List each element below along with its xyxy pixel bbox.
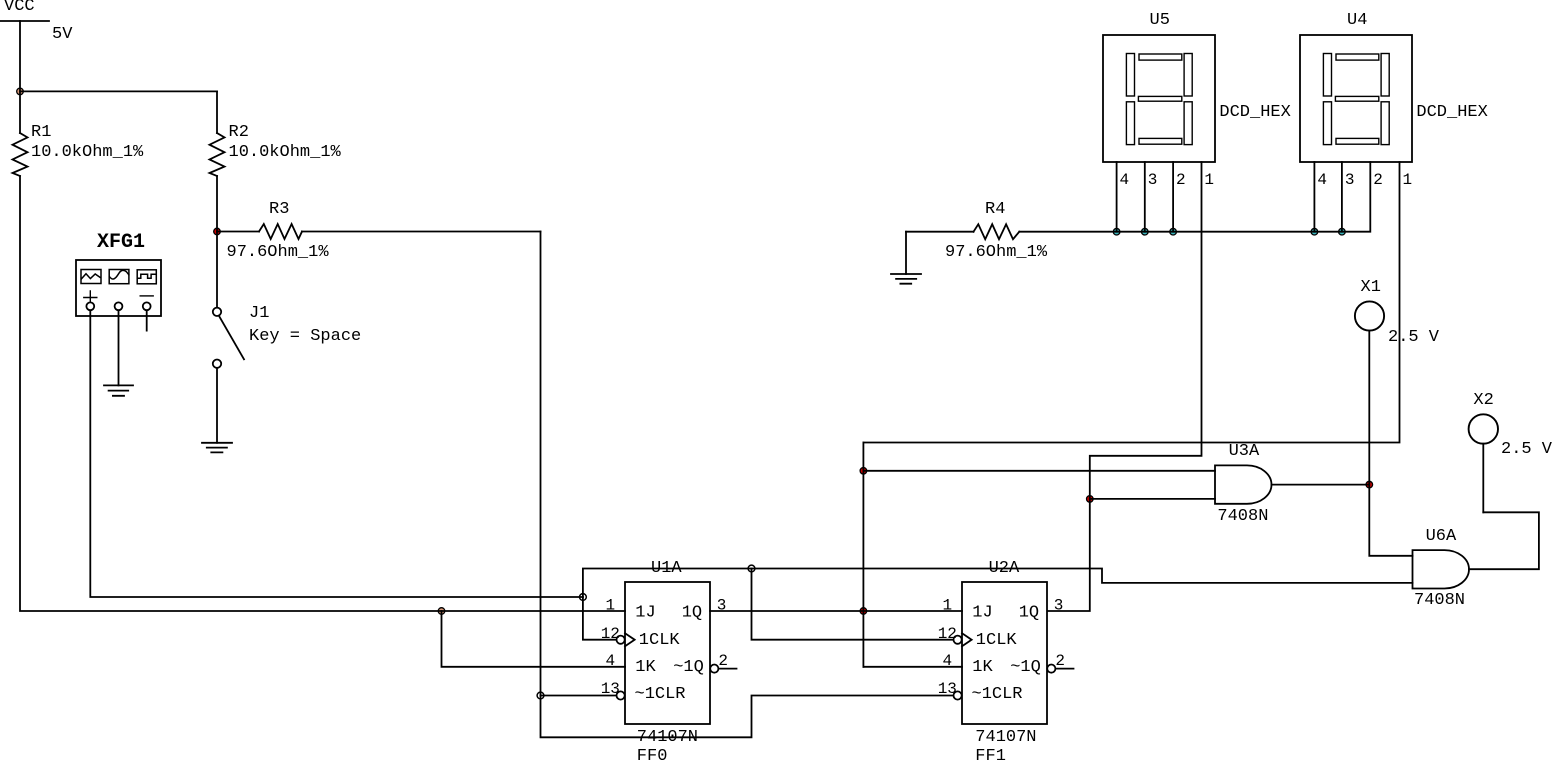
svg-text:12: 12	[938, 625, 957, 643]
svg-text:2: 2	[718, 652, 728, 670]
svg-text:4: 4	[1317, 171, 1327, 189]
svg-text:U2A: U2A	[989, 559, 1020, 578]
display U4 segments	[1323, 54, 1389, 145]
switch J1 top contact	[213, 308, 221, 316]
svg-text:3: 3	[1148, 171, 1158, 189]
wire node F to U3A input 1	[863, 470, 1215, 472]
U1A pin 2 bubble	[710, 665, 718, 673]
svg-text:1Q: 1Q	[682, 604, 702, 623]
wire U1A pin 2 (~1Q) stub	[718, 668, 736, 670]
svg-text:~1Q: ~1Q	[673, 658, 704, 677]
svg-text:U3A: U3A	[1229, 442, 1260, 461]
svg-text:74107N: 74107N	[637, 728, 698, 747]
resistor R4	[974, 224, 1020, 239]
wire CLR node to U1A pin 13 (~1CLR)	[541, 695, 616, 697]
wire CLR node to U2A pin 13 (~1CLR)	[541, 696, 953, 738]
svg-text:10.0kOhm_1%: 10.0kOhm_1%	[229, 143, 342, 162]
ground (J1)	[202, 443, 232, 453]
svg-text:12: 12	[601, 625, 620, 643]
svg-text:1: 1	[1403, 171, 1413, 189]
wire node C to R3	[217, 231, 259, 233]
junction node E (clock to U2A)	[748, 565, 755, 572]
svg-text:7408N: 7408N	[1217, 507, 1268, 526]
XFG1 square icon	[137, 270, 156, 284]
junction Q0 at U1A output	[860, 608, 867, 615]
svg-text:97.6Ohm_1%: 97.6Ohm_1%	[227, 243, 330, 262]
svg-text:R1: R1	[31, 123, 51, 142]
wire net Q0 top run to U4 pin 1	[863, 162, 1399, 443]
svg-text:~1CLR: ~1CLR	[635, 685, 686, 704]
wire node B branch to U1A pin 4 (1K)	[442, 611, 626, 667]
wire U3A output to node H	[1272, 484, 1370, 486]
wire X2 stem	[1482, 444, 1484, 513]
svg-text:2.5 V: 2.5 V	[1388, 328, 1440, 347]
junction node B (R1 net to 1J/1K)	[438, 608, 445, 615]
wire U2A pin 3 (1Q) up to U5 pin 1	[1048, 162, 1202, 611]
XFG1 sine icon	[81, 270, 101, 284]
junction node H (U3A out / X1)	[1366, 481, 1373, 488]
junction node F (Q0 to U3A in1)	[860, 468, 867, 475]
wire clock node D up and right to U6A lower input	[583, 569, 1413, 598]
wire U6A output to X2 net	[1469, 512, 1539, 569]
wire R3 to vertical drop	[302, 231, 541, 233]
svg-text:FF1: FF1	[975, 747, 1006, 766]
U1A clock triangle	[625, 633, 635, 646]
wire XFG1 minus stub	[146, 310, 148, 330]
svg-text:VCC: VCC	[4, 0, 35, 16]
wire net Q0 vertical at x=863	[862, 443, 864, 667]
switch J1 bottom contact	[213, 360, 221, 368]
XFG1 terminal +	[86, 302, 94, 310]
svg-text:U4: U4	[1347, 11, 1367, 30]
svg-text:4: 4	[606, 652, 616, 670]
wire U2A pin 2 (~1Q) stub	[1055, 668, 1073, 670]
junction U5 pin 3 on bus	[1142, 228, 1149, 235]
display U5 body	[1103, 35, 1215, 162]
wire R2 top lead	[216, 91, 218, 133]
svg-text:2: 2	[1373, 171, 1383, 189]
junction U4 pin 4 on bus	[1311, 228, 1318, 235]
svg-text:13: 13	[938, 680, 957, 698]
svg-text:5V: 5V	[52, 25, 73, 44]
svg-text:1K: 1K	[635, 658, 656, 677]
wire R4 left lead	[906, 231, 974, 233]
svg-text:2.5 V: 2.5 V	[1501, 440, 1553, 459]
svg-text:R3: R3	[269, 200, 289, 219]
XFG1 terminal common	[115, 302, 123, 310]
wire U5 pin 2 stub	[1172, 162, 1174, 232]
svg-text:2: 2	[1176, 171, 1186, 189]
junction CLR node	[537, 692, 544, 699]
svg-text:7408N: 7408N	[1414, 591, 1465, 610]
AND gate U3A	[1215, 465, 1272, 503]
junction node G (Q1 to U3A in2)	[1087, 496, 1094, 503]
wire node G to U3A input 2	[1090, 498, 1215, 500]
svg-text:X1: X1	[1361, 278, 1381, 297]
wire U5 pin 4 stub	[1116, 162, 1118, 232]
svg-text:97.6Ohm_1%: 97.6Ohm_1%	[945, 243, 1048, 262]
wire VCC stem to node A	[19, 21, 21, 133]
probe X1	[1355, 301, 1384, 330]
wire R1 bottom to U1A pin 1 (1J)	[20, 176, 625, 611]
power VCC bar	[0, 20, 49, 22]
svg-text:DCD_HEX: DCD_HEX	[1219, 103, 1290, 122]
flip-flop U1A body	[625, 582, 710, 724]
wire XFG1 common to ground	[118, 310, 120, 385]
wire display bus R4 to U4 pin 2	[1019, 162, 1370, 232]
resistor R3	[259, 224, 302, 239]
U1A pin 12 bubble	[617, 636, 625, 644]
junction U5 pin 2 on bus	[1170, 228, 1177, 235]
junction node C (R2/R3/J1)	[214, 228, 221, 235]
wire U5 pin 3 stub	[1144, 162, 1146, 232]
svg-text:U5: U5	[1150, 11, 1170, 30]
svg-text:FF0: FF0	[637, 747, 668, 766]
wire U1A pin 3 (1Q) to U2A pin 1 (1J)	[710, 610, 962, 612]
U1A pin 13 bubble	[617, 691, 625, 699]
wire node C to J1 top	[216, 232, 218, 308]
AND gate U6A	[1413, 550, 1470, 588]
wire U4 pin 3 stub	[1341, 162, 1343, 232]
wire node H down to U6A upper input	[1369, 331, 1412, 556]
wire U4 pin 4 stub	[1313, 162, 1315, 232]
svg-text:1J: 1J	[972, 604, 992, 623]
U2A pin 13 bubble	[954, 691, 962, 699]
probe X2	[1469, 414, 1498, 443]
XFG1 terminal -	[143, 302, 151, 310]
XFG1 triangle icon	[109, 270, 129, 284]
wire R2 bottom lead	[216, 176, 218, 232]
svg-text:74107N: 74107N	[975, 728, 1036, 747]
switch J1 arm	[219, 316, 244, 360]
svg-text:XFG1: XFG1	[97, 231, 145, 254]
function generator XFG1 body	[76, 260, 161, 316]
svg-text:~1CLR: ~1CLR	[972, 685, 1023, 704]
junction node A (VCC/R1/R2)	[17, 88, 24, 95]
flip-flop U2A body	[962, 582, 1047, 724]
svg-text:J1: J1	[249, 304, 269, 323]
svg-text:1Q: 1Q	[1019, 604, 1039, 623]
svg-text:1CLK: 1CLK	[976, 631, 1018, 650]
wire clock node E down to U2A pin 12 (1CLK)	[752, 569, 953, 640]
wire R3 net vertical drop to CLR node	[540, 232, 542, 696]
junction node D (XFG clock)	[580, 594, 587, 601]
svg-text:1: 1	[1204, 171, 1214, 189]
wire J1 bottom to ground	[216, 368, 218, 443]
svg-text:4: 4	[943, 652, 953, 670]
svg-text:R2: R2	[229, 123, 249, 142]
svg-text:U6A: U6A	[1426, 527, 1457, 546]
display U5 segments	[1126, 54, 1192, 145]
svg-text:1CLK: 1CLK	[639, 631, 681, 650]
U2A pin 12 bubble	[954, 636, 962, 644]
U2A pin 2 bubble	[1047, 665, 1055, 673]
wire node A to R2 top	[20, 90, 217, 92]
wire clock node D to U1A pin 12 (1CLK)	[583, 597, 616, 640]
svg-text:1: 1	[943, 597, 953, 615]
svg-text:1J: 1J	[635, 604, 655, 623]
svg-text:3: 3	[717, 597, 727, 615]
svg-text:1K: 1K	[972, 658, 993, 677]
svg-text:X2: X2	[1473, 391, 1493, 410]
svg-text:10.0kOhm_1%: 10.0kOhm_1%	[31, 143, 144, 162]
wire net Q0 branch to U2A pin 4 (1K)	[863, 666, 962, 668]
svg-text:U1A: U1A	[651, 559, 682, 578]
svg-text:~1Q: ~1Q	[1010, 658, 1041, 677]
ground (R4)	[891, 274, 921, 284]
svg-text:DCD_HEX: DCD_HEX	[1416, 103, 1487, 122]
svg-text:3: 3	[1054, 597, 1064, 615]
svg-text:3: 3	[1345, 171, 1355, 189]
wire R4 left lead to ground	[905, 232, 907, 274]
svg-text:R4: R4	[985, 200, 1005, 219]
U2A clock triangle	[962, 633, 972, 646]
junction U5 pin 4 on bus	[1113, 228, 1120, 235]
wire XFG1 plus output to clock node D	[90, 310, 583, 597]
svg-text:2: 2	[1055, 652, 1065, 670]
junction U4 pin 3 on bus	[1339, 228, 1346, 235]
ground (XFG1 common)	[104, 385, 133, 395]
svg-text:Key = Space: Key = Space	[249, 327, 361, 346]
XFG1 minus terminal mark	[140, 295, 153, 297]
resistor R1	[13, 133, 28, 176]
resistor R2	[210, 133, 225, 176]
svg-text:1: 1	[606, 597, 616, 615]
XFG1 plus terminal mark	[84, 291, 97, 304]
svg-text:13: 13	[601, 680, 620, 698]
svg-text:4: 4	[1120, 171, 1130, 189]
display U4 body	[1300, 35, 1412, 162]
